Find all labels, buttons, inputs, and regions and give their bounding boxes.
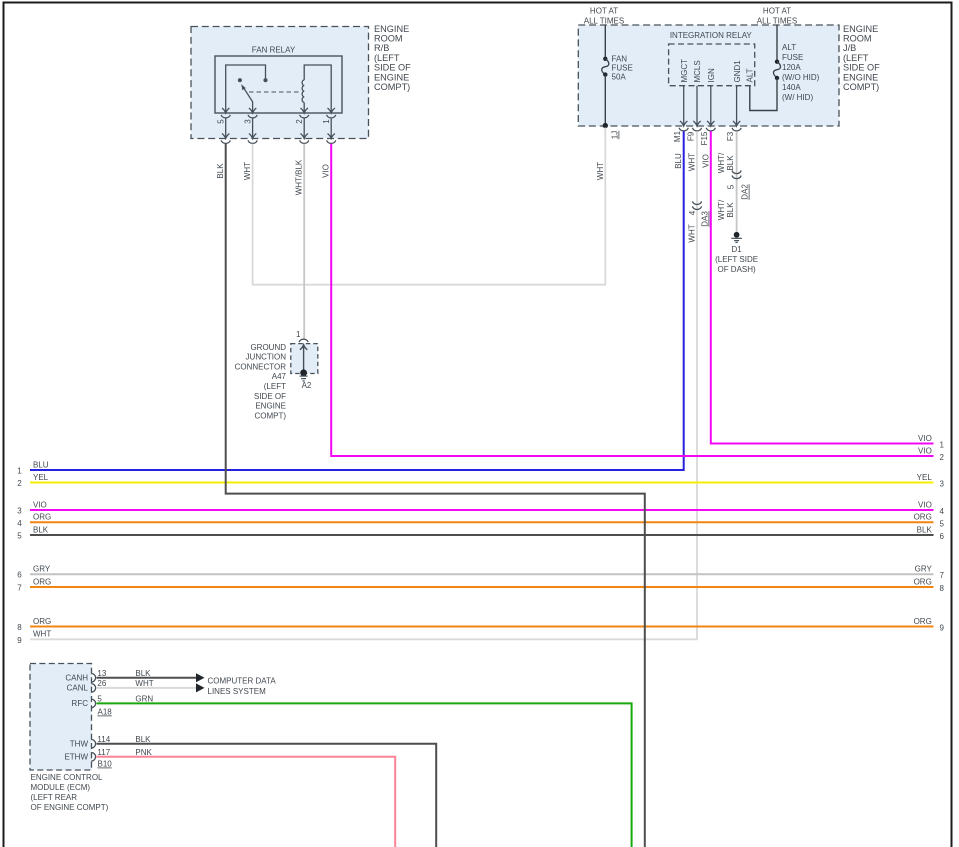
wire GRN RFC: [97, 703, 632, 847]
A47 internal wire: [300, 345, 307, 373]
ECM pin THW 114: [70, 735, 151, 749]
row 6 wire GRY: [30, 573, 934, 575]
svg-text:5: 5: [17, 532, 22, 541]
svg-text:HOT AT: HOT AT: [590, 7, 618, 16]
relay pin 1: [327, 108, 336, 143]
svg-text:PNK: PNK: [135, 748, 152, 757]
engine room R/B label: [374, 24, 411, 92]
hot at all times left: [584, 7, 624, 26]
svg-text:ORG: ORG: [914, 577, 932, 586]
svg-text:7: 7: [17, 584, 22, 593]
svg-text:4: 4: [939, 507, 944, 516]
svg-text:SIDE OF: SIDE OF: [374, 63, 411, 73]
relay mechanical link: [249, 91, 301, 93]
svg-text:2: 2: [939, 453, 944, 462]
svg-text:MODULE (ECM): MODULE (ECM): [31, 783, 91, 792]
svg-text:CANL: CANL: [67, 684, 89, 693]
svg-text:WHT/: WHT/: [717, 199, 726, 220]
svg-text:5: 5: [726, 184, 735, 189]
svg-text:ENGINE: ENGINE: [374, 72, 409, 82]
svg-text:RFC: RFC: [72, 699, 89, 708]
svg-text:5: 5: [939, 519, 944, 528]
pin F9: [692, 86, 701, 131]
row R1 wire VIO: [711, 131, 934, 443]
svg-text:ORG: ORG: [914, 617, 932, 626]
svg-text:ETHW: ETHW: [64, 753, 88, 762]
wire BLK fan relay pin 5: [226, 144, 645, 847]
svg-text:BLU: BLU: [33, 460, 49, 469]
svg-text:YEL: YEL: [917, 473, 933, 482]
alt fuse: [750, 25, 820, 111]
svg-text:ROOM: ROOM: [374, 34, 403, 44]
svg-text:WHT: WHT: [688, 153, 697, 171]
node R9 ORG: [914, 617, 945, 633]
svg-text:DA2: DA2: [741, 184, 750, 200]
svg-text:OF ENGINE COMPT): OF ENGINE COMPT): [31, 803, 109, 812]
svg-text:117: 117: [97, 748, 110, 757]
connector DA2: [726, 171, 749, 200]
svg-text:ALT: ALT: [746, 68, 755, 82]
ground junction connector A47 label: [235, 343, 287, 421]
node R6 BLK: [917, 525, 945, 541]
label WHT/BLK F3: [717, 152, 735, 173]
node L7 ORG: [17, 577, 51, 592]
relay coil: [302, 65, 331, 113]
svg-text:MGCT: MGCT: [680, 59, 689, 83]
svg-text:WHT: WHT: [688, 224, 697, 242]
svg-text:R/B: R/B: [374, 43, 389, 53]
svg-text:COMPT): COMPT): [374, 82, 410, 92]
pin F15: [706, 86, 715, 131]
row R2 wire VIO: [331, 144, 933, 456]
svg-text:5: 5: [217, 119, 226, 124]
svg-text:VIO: VIO: [918, 434, 932, 443]
svg-text:9: 9: [939, 624, 944, 633]
svg-text:ENGINE: ENGINE: [843, 24, 878, 34]
svg-text:J/B: J/B: [843, 43, 856, 53]
svg-text:(LEFT: (LEFT: [843, 53, 869, 63]
svg-text:COMPT): COMPT): [254, 411, 286, 420]
svg-text:3: 3: [17, 507, 22, 516]
node R8 ORG: [914, 577, 945, 593]
svg-text:BLK: BLK: [33, 525, 49, 534]
engine room R/B box: [191, 27, 369, 139]
svg-text:GRY: GRY: [915, 565, 933, 574]
svg-text:DA3: DA3: [701, 211, 710, 227]
wire BLK THW: [97, 744, 437, 847]
svg-text:GND1: GND1: [733, 60, 742, 83]
svg-text:A2: A2: [302, 381, 312, 390]
svg-text:ALL TIMES: ALL TIMES: [757, 17, 797, 26]
svg-text:CONNECTOR: CONNECTOR: [235, 362, 287, 371]
svg-text:LINES SYSTEM: LINES SYSTEM: [208, 687, 267, 696]
svg-text:ALT: ALT: [782, 43, 796, 52]
svg-text:50A: 50A: [612, 73, 627, 82]
svg-text:OF DASH): OF DASH): [717, 265, 756, 274]
svg-text:VIO: VIO: [918, 446, 932, 455]
svg-text:B10: B10: [98, 760, 113, 769]
pin M1: [679, 86, 688, 131]
svg-text:COMPUTER DATA: COMPUTER DATA: [208, 677, 277, 686]
svg-text:ENGINE CONTROL: ENGINE CONTROL: [31, 773, 104, 782]
svg-text:7: 7: [939, 571, 944, 580]
svg-text:2: 2: [295, 119, 304, 124]
node L4 ORG: [17, 513, 51, 528]
fan relay body: [215, 46, 342, 114]
svg-text:WHT: WHT: [33, 630, 51, 639]
svg-text:VIO: VIO: [322, 164, 331, 178]
svg-text:FAN RELAY: FAN RELAY: [252, 46, 296, 55]
svg-text:6: 6: [17, 571, 22, 580]
node R2 VIO: [918, 446, 944, 462]
svg-text:5: 5: [97, 695, 102, 704]
row 8 wire ORG: [30, 626, 934, 628]
svg-text:F15: F15: [700, 131, 709, 145]
svg-text:114: 114: [97, 735, 110, 744]
svg-text:MCLS: MCLS: [693, 60, 702, 82]
svg-text:ORG: ORG: [914, 513, 932, 522]
ECM pin ETHW 117: [64, 748, 152, 762]
svg-text:BLK: BLK: [216, 163, 225, 179]
svg-text:1: 1: [296, 330, 301, 339]
node L5 BLK: [17, 525, 49, 540]
node L6 GRY: [17, 565, 51, 580]
svg-text:SIDE OF: SIDE OF: [254, 392, 286, 401]
svg-text:FAN: FAN: [612, 55, 628, 64]
pin F3: [732, 86, 741, 131]
row 4 wire ORG: [30, 521, 934, 523]
svg-text:COMPT): COMPT): [843, 82, 879, 92]
svg-text:WHT/: WHT/: [717, 152, 726, 173]
svg-text:FUSE: FUSE: [612, 64, 633, 73]
svg-text:ORG: ORG: [33, 617, 51, 626]
svg-text:(LEFT: (LEFT: [264, 382, 286, 391]
svg-text:BLU: BLU: [674, 153, 683, 169]
svg-text:WHT: WHT: [596, 162, 605, 180]
svg-text:(LEFT: (LEFT: [374, 53, 400, 63]
svg-text:SIDE OF: SIDE OF: [843, 63, 880, 73]
wire WHT 1J to fan relay pin 3: [253, 128, 606, 285]
label WHT/BLK below DA2: [717, 199, 735, 220]
svg-text:HOT AT: HOT AT: [763, 7, 791, 16]
svg-text:4: 4: [688, 210, 697, 215]
svg-text:BLK: BLK: [726, 155, 735, 171]
svg-text:ENGINE: ENGINE: [843, 72, 878, 82]
svg-text:1: 1: [322, 119, 331, 124]
svg-text:13: 13: [97, 669, 106, 678]
svg-text:A47: A47: [272, 372, 287, 381]
svg-text:GRY: GRY: [33, 565, 51, 574]
node R1 VIO: [918, 434, 944, 450]
svg-text:9: 9: [17, 636, 22, 645]
svg-text:(W/ HID): (W/ HID): [782, 93, 813, 102]
wire WHT/BLK F3 to D1: [736, 131, 738, 232]
svg-text:BLK: BLK: [135, 735, 151, 744]
svg-text:FUSE: FUSE: [782, 53, 803, 62]
svg-text:WHT/BLK: WHT/BLK: [295, 159, 304, 195]
svg-text:1: 1: [939, 441, 944, 450]
svg-text:JUNCTION: JUNCTION: [246, 353, 287, 362]
engine room J/B box: [578, 25, 839, 126]
svg-text:(LEFT REAR: (LEFT REAR: [31, 793, 78, 802]
fan fuse 50A: [602, 25, 633, 126]
ECM pin CANL 26: [67, 679, 154, 693]
svg-text:8: 8: [939, 584, 944, 593]
svg-text:WHT: WHT: [243, 162, 252, 180]
node R5 ORG: [914, 513, 945, 529]
wire PNK ETHW: [97, 757, 396, 847]
svg-text:4: 4: [17, 519, 22, 528]
svg-text:GROUND: GROUND: [250, 343, 286, 352]
svg-text:INTEGRATION RELAY: INTEGRATION RELAY: [670, 31, 753, 40]
svg-text:A18: A18: [98, 708, 113, 717]
wire BLK CANH: [97, 673, 277, 685]
svg-text:(W/O HID): (W/O HID): [782, 73, 820, 82]
node R3 YEL: [917, 473, 945, 489]
relay pin 3: [248, 108, 257, 143]
svg-text:1: 1: [17, 467, 22, 476]
ECM pin RFC 5: [72, 695, 154, 709]
svg-text:26: 26: [97, 679, 106, 688]
ECM caption: [31, 773, 109, 812]
svg-text:(LEFT SIDE: (LEFT SIDE: [715, 255, 758, 264]
node L3 VIO: [17, 500, 47, 515]
row 1 wire BLU: [30, 131, 684, 470]
integration relay box: [669, 31, 755, 86]
svg-text:THW: THW: [70, 740, 89, 749]
relay pin 2: [300, 108, 309, 143]
node L2 YEL: [17, 473, 48, 488]
A47 pin 1: [296, 330, 308, 342]
svg-text:BLK: BLK: [726, 202, 735, 218]
row 3 wire VIO: [30, 509, 934, 511]
svg-text:6: 6: [939, 532, 944, 541]
svg-text:8: 8: [17, 623, 22, 632]
svg-text:VIO: VIO: [701, 154, 710, 168]
svg-text:YEL: YEL: [33, 473, 49, 482]
svg-text:2: 2: [17, 479, 22, 488]
svg-text:BLK: BLK: [135, 669, 151, 678]
svg-text:1J: 1J: [611, 131, 620, 139]
wire WHT/BLK relay pin 2 to A47: [303, 144, 305, 339]
row 7 wire ORG: [30, 586, 934, 588]
svg-text:CANH: CANH: [65, 674, 88, 683]
svg-text:VIO: VIO: [918, 500, 932, 509]
svg-text:140A: 140A: [782, 83, 801, 92]
svg-text:ALL TIMES: ALL TIMES: [584, 17, 624, 26]
svg-text:M1: M1: [673, 130, 682, 142]
svg-text:ROOM: ROOM: [843, 34, 872, 44]
engine room J/B label: [843, 24, 880, 92]
svg-text:ORG: ORG: [33, 513, 51, 522]
svg-text:120A: 120A: [782, 63, 801, 72]
row 5 wire BLK: [30, 534, 934, 536]
node L1 BLU: [17, 460, 49, 475]
relay switch: [226, 65, 268, 113]
svg-text:3: 3: [939, 480, 944, 489]
ground A2: [300, 369, 312, 390]
svg-text:D1: D1: [731, 245, 742, 254]
svg-text:ENGINE: ENGINE: [255, 402, 286, 411]
relay pin 5: [221, 108, 230, 143]
node R4 VIO: [918, 500, 944, 516]
pin 1J: [603, 123, 620, 139]
svg-text:GRN: GRN: [135, 695, 153, 704]
svg-text:VIO: VIO: [33, 500, 47, 509]
A47 box: [291, 344, 318, 374]
svg-text:ENGINE: ENGINE: [374, 24, 409, 34]
svg-text:ORG: ORG: [33, 577, 51, 586]
node L9 WHT: [17, 630, 51, 645]
wire WHT F9 to row 9: [30, 131, 697, 639]
node R7 GRY: [915, 565, 945, 581]
svg-text:IGN: IGN: [707, 68, 716, 82]
row 2 wire YEL: [30, 482, 934, 484]
connector DA3: [688, 201, 710, 226]
node L8 ORG: [17, 617, 51, 632]
svg-text:WHT: WHT: [135, 679, 153, 688]
svg-text:F3: F3: [726, 131, 735, 141]
wire WHT CANL: [97, 683, 267, 696]
hot at all times right: [757, 7, 797, 26]
svg-text:3: 3: [243, 119, 252, 124]
svg-text:BLK: BLK: [917, 525, 933, 534]
ground D1: [715, 232, 758, 274]
svg-text:F9: F9: [686, 131, 695, 141]
ECM box: [30, 664, 92, 771]
ECM pin CANH 13: [65, 669, 151, 683]
